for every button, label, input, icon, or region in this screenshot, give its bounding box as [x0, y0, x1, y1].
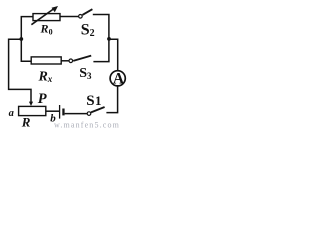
svg-text:R: R	[38, 70, 48, 85]
svg-text:1: 1	[95, 93, 102, 108]
svg-text:S: S	[81, 21, 90, 38]
svg-text:R: R	[40, 22, 49, 36]
svg-text:2: 2	[90, 28, 95, 39]
svg-text:a: a	[9, 108, 14, 119]
svg-text:A: A	[113, 71, 125, 88]
svg-text:P: P	[38, 91, 47, 107]
svg-text:S: S	[86, 93, 94, 109]
svg-text:3: 3	[87, 71, 92, 81]
svg-text:R: R	[21, 115, 31, 130]
svg-text:w.manfen5.com: w.manfen5.com	[54, 121, 120, 130]
svg-text:0: 0	[49, 28, 53, 37]
svg-text:x: x	[47, 74, 53, 84]
